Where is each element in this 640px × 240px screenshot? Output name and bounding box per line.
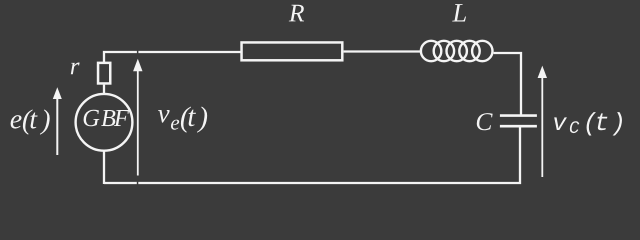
wire L to capacitor: [494, 53, 521, 115]
arrow line v_e(t): [137, 71, 139, 176]
source U1 GBF circle: [76, 94, 133, 151]
label e(t): [11, 109, 50, 134]
capacitor C plates: [500, 116, 537, 127]
wire top-left corner: [104, 52, 137, 62]
wire R to L: [344, 50, 421, 52]
arrowhead v_e(t): [133, 59, 142, 72]
label GBF: [84, 110, 130, 126]
wire source to bottom: [103, 151, 105, 184]
wire bottom left segment: [104, 182, 137, 184]
label v_C(t): [554, 112, 622, 135]
arrow line e(t): [56, 98, 58, 155]
wire r to source: [103, 85, 105, 93]
arrowhead v_C(t): [538, 66, 547, 78]
resistor r: [98, 63, 110, 84]
wire top to resistor R: [138, 51, 240, 53]
arrow line v_C(t): [541, 77, 543, 177]
label R: [289, 5, 304, 22]
label v_e(t): [158, 106, 207, 132]
label L: [452, 4, 466, 21]
arrowhead e(t): [53, 87, 62, 99]
inductor L coils: [421, 41, 493, 61]
label C: [477, 113, 493, 130]
wire bottom right segment: [138, 128, 520, 184]
resistor R: [242, 42, 343, 60]
label r: [71, 63, 80, 75]
